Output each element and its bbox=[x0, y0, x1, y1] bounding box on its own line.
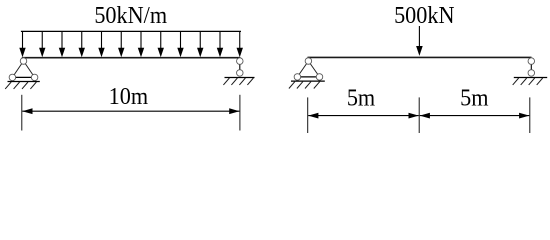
dimension extension line left (beam 1) bbox=[21, 95, 23, 131]
ground line under support B bbox=[225, 77, 255, 79]
roller support D link bbox=[530, 61, 532, 73]
dimension extension line right (beam 2) bbox=[529, 97, 531, 133]
dimension line 10m bbox=[22, 108, 239, 114]
roller support B lower circle bbox=[237, 70, 244, 77]
load arrow 1 bbox=[19, 31, 25, 57]
dimension extension line left (beam 2) bbox=[307, 97, 309, 133]
roller support B upper circle bbox=[237, 58, 244, 65]
load arrow 10 bbox=[197, 31, 203, 57]
pin support C left base circle bbox=[294, 74, 301, 81]
svg-text:5m: 5m bbox=[460, 85, 488, 112]
ground line under support A bbox=[8, 81, 40, 83]
pin support A left base circle bbox=[9, 74, 16, 81]
load arrow 12 bbox=[237, 31, 243, 57]
beam 1 bbox=[22, 57, 241, 59]
load arrow 5 bbox=[98, 31, 104, 57]
load arrow 9 bbox=[177, 31, 183, 57]
load arrow 2 bbox=[39, 31, 45, 57]
roller support D lower circle bbox=[528, 70, 535, 77]
load arrow 11 bbox=[217, 31, 223, 57]
pin support A links bbox=[12, 61, 34, 77]
ground hatching under support B bbox=[223, 78, 253, 85]
dimension extension line right (beam 1) bbox=[239, 95, 241, 131]
svg-text:500kN: 500kN bbox=[394, 2, 455, 29]
pin support C links bbox=[297, 61, 319, 77]
load arrow 6 bbox=[118, 31, 124, 57]
load arrow 7 bbox=[138, 31, 144, 57]
beam 2 bbox=[308, 56, 532, 58]
ground hatching under support C bbox=[289, 82, 320, 89]
dimension line 5m right span bbox=[420, 113, 530, 119]
roller support B link bbox=[239, 61, 241, 73]
ground hatching under support D bbox=[513, 78, 543, 85]
load arrow 8 bbox=[158, 31, 164, 57]
ground hatching under support A bbox=[5, 82, 36, 89]
svg-text:5m: 5m bbox=[347, 85, 375, 112]
roller support D upper circle bbox=[528, 58, 535, 65]
svg-text:50kN/m: 50kN/m bbox=[94, 2, 167, 29]
load arrow 3 bbox=[59, 31, 65, 57]
load arrow 4 bbox=[79, 31, 85, 57]
point load arrow P bbox=[416, 26, 423, 56]
load line bbox=[21, 30, 241, 32]
dimension line 5m left span bbox=[308, 113, 419, 119]
pin support C apex hinge circle bbox=[305, 58, 312, 65]
pin support A right base circle bbox=[31, 74, 38, 81]
pin support C right base circle bbox=[316, 74, 323, 81]
svg-text:10m: 10m bbox=[109, 83, 148, 110]
dimension extension line middle (beam 2) bbox=[418, 97, 420, 133]
ground line under support C bbox=[291, 80, 325, 82]
ground line under support D bbox=[514, 77, 547, 79]
pin support A apex hinge circle bbox=[20, 58, 27, 65]
